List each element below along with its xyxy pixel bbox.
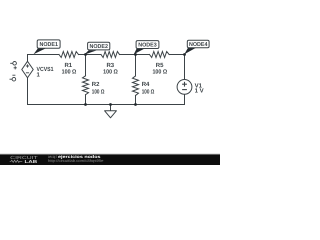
label VCVS1 value [37, 66, 55, 79]
svg-text:NODE3: NODE3 [138, 43, 157, 49]
label R2 value [92, 81, 105, 95]
label V1 value [195, 83, 204, 95]
junction dots [84, 53, 186, 106]
resistor R5 [150, 52, 170, 58]
footer logo resistor zigzag [10, 160, 23, 162]
wire rail R3 to NODE3 and NODE3 to R5 [120, 54, 150, 56]
svg-text:R2: R2 [92, 81, 100, 88]
wire V1 bottom to rail [184, 94, 186, 104]
vcvs VCVS1 polarity marks [26, 64, 29, 72]
wire top rail left segment [28, 55, 60, 62]
vcvs control terminal + (top) [10, 62, 17, 70]
label R5 value [152, 62, 167, 75]
svg-text:100 Ω: 100 Ω [103, 68, 118, 75]
ground [105, 105, 117, 118]
footer bar [0, 154, 220, 165]
wire R4 bottom lead [135, 96, 137, 105]
svg-text:100 Ω: 100 Ω [152, 68, 167, 75]
wire NODE4 down to V1 [184, 55, 186, 80]
vcvs control terminal - (bottom) [10, 75, 16, 81]
label R1 value [62, 62, 77, 75]
wire bottom rail [28, 104, 185, 106]
wire NODE3 down to R4 [135, 55, 137, 77]
svg-text:NODE2: NODE2 [89, 44, 108, 50]
wire rail R5 to NODE4 corner [169, 54, 184, 56]
node NODE1 flag [34, 40, 61, 54]
svg-text:R1: R1 [64, 62, 72, 69]
vcvs VCVS1 diamond [22, 61, 33, 78]
svg-text:R3: R3 [106, 62, 114, 69]
label R3 value [103, 62, 118, 75]
wire NODE2 down to R2 [85, 55, 87, 76]
wire rail R1 to NODE2 [79, 54, 102, 56]
svg-text:100 Ω: 100 Ω [62, 68, 77, 75]
svg-text:1 V: 1 V [195, 88, 204, 95]
svg-text:100 Ω: 100 Ω [92, 88, 105, 95]
resistor R2 [83, 76, 89, 95]
node NODE4 flag [184, 40, 209, 54]
resistor R4 [133, 76, 139, 96]
node NODE3 flag [134, 41, 159, 55]
svg-text:http://circuitlab.com/c8hqs95e: http://circuitlab.com/c8hqs95e [48, 158, 104, 163]
svg-text:R5: R5 [156, 62, 164, 69]
svg-text:NODE4: NODE4 [189, 42, 208, 48]
voltage source V1 circle [177, 80, 192, 95]
V1 polarity marks [182, 82, 187, 90]
svg-text:NODE1: NODE1 [39, 42, 58, 48]
svg-text:100 Ω: 100 Ω [142, 88, 155, 95]
svg-text:LAB: LAB [25, 159, 38, 164]
resistor R3 [101, 52, 120, 58]
wire VCVS bottom lead [27, 78, 29, 105]
node NODE2 flag [84, 42, 110, 55]
resistor R1 [59, 52, 79, 58]
label R4 value [142, 81, 155, 95]
svg-text:R4: R4 [142, 81, 150, 88]
wire R2 bottom lead [85, 95, 87, 105]
